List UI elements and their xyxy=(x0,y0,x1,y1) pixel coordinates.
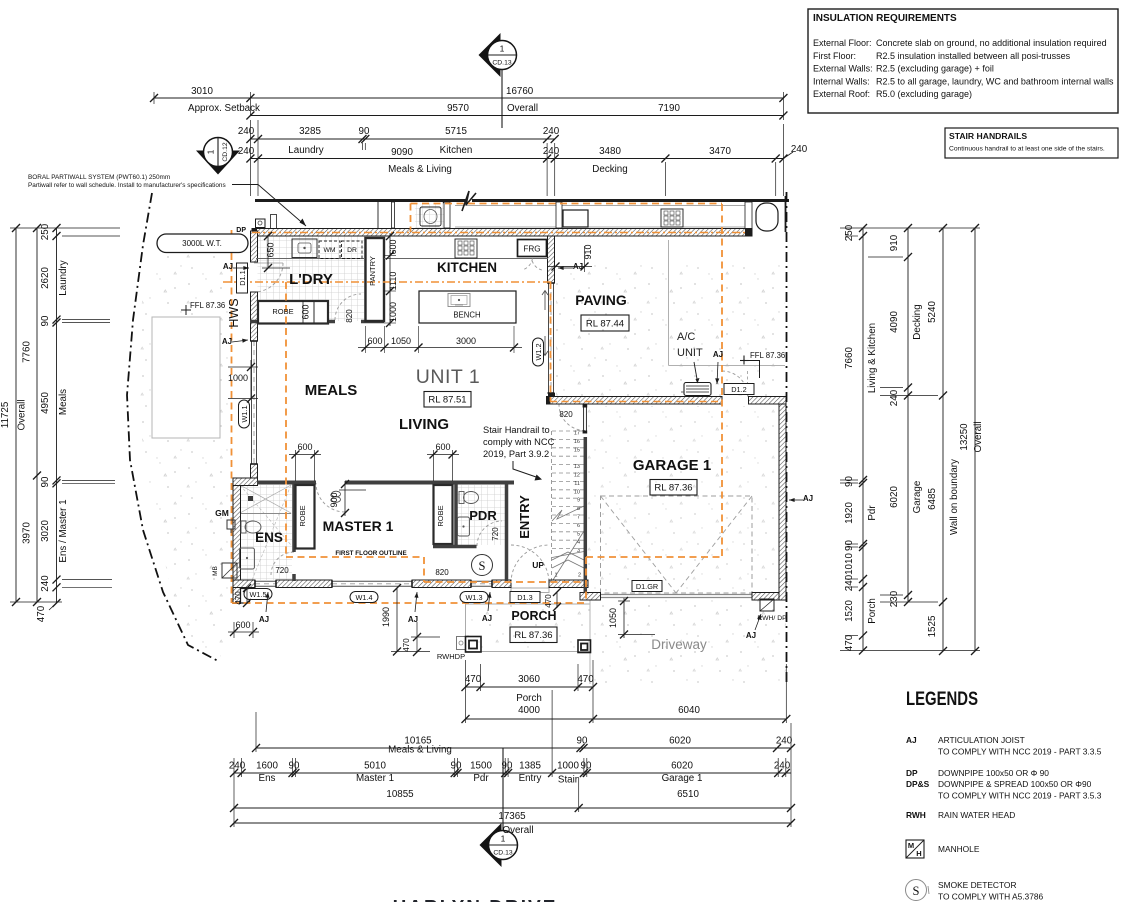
door arc D1.2 paving xyxy=(722,371,748,397)
svg-text:Internal Walls:: Internal Walls: xyxy=(813,76,870,86)
stipple garage floor xyxy=(587,406,779,592)
svg-text:SMOKE DETECTOR: SMOKE DETECTOR xyxy=(938,880,1017,890)
svg-text:1920: 1920 xyxy=(844,502,855,524)
svg-text:UNIT: UNIT xyxy=(677,347,703,359)
dim 1990 porch left xyxy=(396,588,398,652)
front wall segment d xyxy=(492,580,511,588)
left dimension line 11725 xyxy=(15,228,17,602)
window W1.2 xyxy=(548,283,550,393)
first floor outline garage vertical xyxy=(721,204,723,557)
top dimension row 4 xyxy=(250,158,783,160)
meter box symbol xyxy=(222,563,237,578)
svg-text:4090: 4090 xyxy=(889,311,900,333)
bottom porch 4000 row xyxy=(466,718,787,720)
tag W1.3 xyxy=(460,592,488,603)
label RL 87.44 box xyxy=(581,315,629,331)
unit2 bench box xyxy=(563,210,588,227)
dim 910 paving xyxy=(548,266,592,268)
svg-text:240: 240 xyxy=(238,146,255,157)
svg-text:MASTER 1: MASTER 1 xyxy=(323,518,394,534)
svg-text:Garage 1: Garage 1 xyxy=(662,773,703,784)
section marker CO.12 left xyxy=(196,151,240,175)
top dimension row 2 xyxy=(250,115,783,117)
svg-text:1: 1 xyxy=(554,573,557,579)
water tank 3000L xyxy=(157,234,248,253)
dim 650 laundry xyxy=(267,236,269,268)
dim kitchen 600 1050 3000 xyxy=(358,347,522,349)
svg-text:AJ: AJ xyxy=(223,262,233,271)
dim 470 entry step xyxy=(556,592,558,608)
first floor outline deck-garage wall segment xyxy=(550,401,722,403)
svg-text:External Walls:: External Walls: xyxy=(813,64,873,74)
unit2 wall stub b xyxy=(444,202,450,228)
svg-text:9: 9 xyxy=(577,498,580,504)
svg-text:15: 15 xyxy=(574,447,580,453)
svg-text:A/C: A/C xyxy=(677,331,695,343)
dim 900 master door xyxy=(344,481,346,516)
downpipe square top xyxy=(256,219,266,228)
driveway porch divider line xyxy=(589,600,591,684)
svg-text:BENCH: BENCH xyxy=(453,311,480,320)
svg-text:TO COMPLY WITH A5.3786: TO COMPLY WITH A5.3786 xyxy=(938,892,1044,902)
svg-text:1000: 1000 xyxy=(388,302,398,322)
svg-text:470: 470 xyxy=(544,594,553,608)
site boundary left dash-dot xyxy=(127,193,218,661)
svg-text:240: 240 xyxy=(238,126,255,137)
svg-text:Garage: Garage xyxy=(912,480,923,513)
svg-text:1050: 1050 xyxy=(608,608,618,628)
tag D1.1 xyxy=(237,263,248,293)
svg-text:240: 240 xyxy=(791,144,808,155)
rain water head RWHDP xyxy=(457,637,466,650)
svg-text:13: 13 xyxy=(574,464,580,470)
svg-text:3: 3 xyxy=(577,548,580,554)
svg-text:Pdr: Pdr xyxy=(473,773,489,784)
dim 600 laundry robe xyxy=(302,301,304,323)
svg-text:Overall: Overall xyxy=(973,421,984,452)
svg-text:1000: 1000 xyxy=(557,761,579,772)
svg-text:Decking: Decking xyxy=(912,304,923,339)
svg-text:240: 240 xyxy=(776,736,793,747)
svg-text:PDR: PDR xyxy=(469,508,497,523)
svg-text:RL 87.51: RL 87.51 xyxy=(428,395,466,406)
window W1.2 slide arrows xyxy=(542,291,548,311)
svg-text:DP&S: DP&S xyxy=(906,779,930,789)
ensuite toilet xyxy=(241,521,246,533)
svg-text:1: 1 xyxy=(500,44,505,54)
svg-text:D1.2: D1.2 xyxy=(731,385,746,394)
svg-text:INSULATION REQUIREMENTS: INSULATION REQUIREMENTS xyxy=(813,13,957,24)
svg-text:1385: 1385 xyxy=(519,761,541,772)
laundry meals wall xyxy=(250,320,335,324)
svg-text:Overall: Overall xyxy=(17,399,28,430)
svg-text:90: 90 xyxy=(451,761,462,772)
porch slab outline xyxy=(466,604,591,652)
svg-text:90: 90 xyxy=(577,736,588,747)
svg-text:W1.4: W1.4 xyxy=(355,593,372,602)
svg-text:PANTRY: PANTRY xyxy=(368,256,377,286)
svg-text:1: 1 xyxy=(206,149,216,154)
svg-text:W1.5: W1.5 xyxy=(249,590,266,599)
svg-text:R2.5 (excluding garage) + foil: R2.5 (excluding garage) + foil xyxy=(876,64,994,74)
ensuite right wall xyxy=(292,484,296,552)
svg-text:R5.0 (excluding garage): R5.0 (excluding garage) xyxy=(876,89,972,99)
svg-text:First Floor:: First Floor: xyxy=(813,51,856,61)
kitchen bench edge xyxy=(384,258,548,260)
svg-text:RAIN WATER HEAD: RAIN WATER HEAD xyxy=(938,810,1015,820)
svg-text:WM: WM xyxy=(323,247,335,254)
svg-text:Laundry: Laundry xyxy=(58,260,69,296)
stipple driveway xyxy=(590,600,786,684)
svg-text:90: 90 xyxy=(581,761,592,772)
svg-text:AJ: AJ xyxy=(713,350,723,359)
paving edge horizontal line xyxy=(669,365,786,367)
svg-text:90: 90 xyxy=(289,761,300,772)
tile floor laundry xyxy=(258,236,365,321)
stair left edge xyxy=(551,431,553,581)
first floor outline bottom xyxy=(232,602,586,604)
svg-text:600: 600 xyxy=(297,442,312,452)
svg-text:AJ: AJ xyxy=(482,614,492,623)
svg-text:470: 470 xyxy=(465,674,482,685)
svg-text:GARAGE 1: GARAGE 1 xyxy=(633,457,711,474)
svg-text:Partiwall refer to wall schedu: Partiwall refer to wall schedule. Instal… xyxy=(28,182,226,189)
svg-text:D1.GR: D1.GR xyxy=(636,582,658,591)
svg-text:Kitchen: Kitchen xyxy=(440,145,473,156)
svg-text:13250: 13250 xyxy=(959,423,970,451)
svg-text:240: 240 xyxy=(889,389,900,406)
bottom porch row xyxy=(466,686,594,688)
svg-text:Ens: Ens xyxy=(259,773,276,784)
door arc D1.1 laundry entry xyxy=(254,263,283,292)
svg-text:3020: 3020 xyxy=(40,520,51,542)
svg-text:W1.2: W1.2 xyxy=(534,343,543,360)
svg-text:AJ: AJ xyxy=(906,735,917,745)
svg-text:R2.5 to all garage, laundry, W: R2.5 to all garage, laundry, WC and bath… xyxy=(876,76,1114,86)
svg-text:Concrete slab on ground, no ad: Concrete slab on ground, no additional i… xyxy=(876,38,1107,48)
top line triangle marker xyxy=(443,202,451,208)
label RL 87.36 garage box xyxy=(650,480,697,496)
right dimension line B xyxy=(907,228,909,602)
svg-text:DR: DR xyxy=(347,247,357,254)
tile floor unit2 laundry strip xyxy=(415,203,444,228)
shower screen diagonals ensuite xyxy=(240,485,291,513)
fridge box FRG xyxy=(518,240,547,257)
svg-text:600: 600 xyxy=(235,620,250,630)
dim 600 robes master xyxy=(295,450,297,481)
svg-text:3000L W.T.: 3000L W.T. xyxy=(182,239,222,248)
svg-text:LIVING: LIVING xyxy=(399,416,449,433)
svg-text:CD.13: CD.13 xyxy=(492,60,511,67)
front wall segment a xyxy=(233,580,255,588)
top dimension extension lines xyxy=(249,120,251,196)
laundry robe block xyxy=(258,301,328,324)
svg-text:GM: GM xyxy=(215,508,229,518)
right dimension line A xyxy=(862,228,864,651)
site boundary right dash-dot xyxy=(786,192,788,684)
left dimension extension dashes xyxy=(62,227,120,229)
svg-text:KITCHEN: KITCHEN xyxy=(437,260,497,275)
svg-text:Continuous handrail to at leas: Continuous handrail to at least one side… xyxy=(949,146,1105,153)
first floor outline kitchen line xyxy=(223,281,551,283)
svg-text:3285: 3285 xyxy=(299,126,321,137)
svg-text:9570: 9570 xyxy=(447,103,469,114)
svg-text:250: 250 xyxy=(844,224,855,241)
first floor outline front wall segment xyxy=(424,581,586,583)
bottom 10165 row xyxy=(256,747,791,749)
ensuite left external wall xyxy=(233,486,241,588)
tile floor powder room xyxy=(458,485,506,545)
washing machine box xyxy=(319,241,340,259)
first floor outline kitchen wall vertical xyxy=(550,282,552,402)
svg-text:2019, Part 3.9.2: 2019, Part 3.9.2 xyxy=(483,449,549,459)
svg-text:16760: 16760 xyxy=(506,86,534,97)
left external wall lower xyxy=(251,464,258,479)
paving edge vertical line xyxy=(668,240,670,366)
svg-text:DP: DP xyxy=(906,768,918,778)
pantry block xyxy=(366,238,385,321)
svg-text:W1.1: W1.1 xyxy=(240,405,249,422)
rain water head right RWH/DP xyxy=(760,599,774,611)
first floor outline porch right vertical xyxy=(585,557,587,603)
svg-text:250: 250 xyxy=(40,223,51,240)
right dimension line D xyxy=(974,228,976,651)
svg-text:7760: 7760 xyxy=(22,341,33,363)
first floor outline master vertical xyxy=(285,282,287,557)
svg-text:Porch: Porch xyxy=(867,598,878,624)
porch post left xyxy=(466,637,482,653)
svg-text:90: 90 xyxy=(844,476,855,487)
stair diagonal cut xyxy=(553,531,584,580)
stair break line xyxy=(552,506,584,521)
section marker CD.13 top xyxy=(479,33,501,77)
powder left wall xyxy=(454,484,458,548)
svg-text:comply with NCC: comply with NCC xyxy=(483,437,555,447)
svg-text:240: 240 xyxy=(543,126,560,137)
window W1.4 xyxy=(332,580,412,582)
svg-text:Meals & Living: Meals & Living xyxy=(388,164,452,175)
stair handrails box xyxy=(945,128,1118,158)
svg-text:6040: 6040 xyxy=(678,705,700,716)
deck strip top line xyxy=(455,205,745,207)
svg-text:Master 1: Master 1 xyxy=(356,773,394,784)
svg-text:240: 240 xyxy=(40,575,51,592)
svg-text:CD.12: CD.12 xyxy=(222,142,229,161)
tag W1.2 xyxy=(533,338,544,366)
svg-text:1010: 1010 xyxy=(844,553,855,575)
front wall segment b xyxy=(276,580,332,588)
svg-text:Driveway: Driveway xyxy=(651,637,707,652)
tag D1.3 xyxy=(510,592,540,603)
master robe right block xyxy=(434,485,453,544)
svg-text:ENS: ENS xyxy=(255,530,283,545)
svg-text:Decking: Decking xyxy=(592,164,627,175)
corner pier below ensuite xyxy=(233,588,241,604)
top dimension row 3 xyxy=(250,138,555,140)
bottom 10855 row xyxy=(234,807,791,809)
svg-text:Stair: Stair xyxy=(558,775,579,786)
left external wall upper with D1.1 opening xyxy=(251,231,258,262)
svg-text:RWHDP: RWHDP xyxy=(437,652,465,661)
svg-text:3000: 3000 xyxy=(456,336,476,346)
deck strip bottom line xyxy=(455,226,745,228)
svg-text:FFL 87.36: FFL 87.36 xyxy=(750,351,785,360)
label RL 87.36 porch box xyxy=(510,627,557,643)
smoke detector entry xyxy=(472,555,493,576)
svg-text:S: S xyxy=(913,884,920,898)
garage door panel xyxy=(601,594,753,596)
svg-text:Laundry: Laundry xyxy=(288,145,324,156)
svg-text:ENTRY: ENTRY xyxy=(517,495,532,539)
garage front wall left xyxy=(580,593,601,601)
svg-text:PORCH: PORCH xyxy=(511,609,556,623)
svg-text:Ens / Master 1: Ens / Master 1 xyxy=(58,499,69,562)
svg-text:3480: 3480 xyxy=(599,146,621,157)
wall break symbol xyxy=(462,191,476,211)
svg-text:240: 240 xyxy=(844,574,855,591)
svg-text:LEGENDS: LEGENDS xyxy=(906,688,978,710)
svg-text:M: M xyxy=(908,841,914,850)
svg-text:W1.3: W1.3 xyxy=(465,593,482,602)
window W1.1 xyxy=(251,341,253,464)
svg-text:600: 600 xyxy=(367,336,382,346)
entry porch step xyxy=(511,588,549,593)
svg-text:600: 600 xyxy=(388,239,398,254)
svg-text:DOWNPIPE 100x50 OR Φ 90: DOWNPIPE 100x50 OR Φ 90 xyxy=(938,768,1049,778)
svg-text:7190: 7190 xyxy=(658,103,680,114)
right dimension extension dashes xyxy=(840,227,980,229)
bottom 17365 row xyxy=(234,822,791,824)
svg-text:10: 10 xyxy=(574,489,580,495)
svg-text:910: 910 xyxy=(583,244,593,259)
svg-text:1520: 1520 xyxy=(844,600,855,622)
master top wall xyxy=(257,481,316,485)
svg-text:820: 820 xyxy=(559,410,573,419)
dryer box xyxy=(342,241,363,259)
svg-text:AJ: AJ xyxy=(746,631,756,640)
svg-text:90: 90 xyxy=(40,476,51,487)
svg-text:470: 470 xyxy=(36,605,47,622)
right fence line top xyxy=(785,196,787,232)
svg-text:UP: UP xyxy=(532,560,544,570)
dim 1050 garage door xyxy=(623,598,625,638)
svg-text:5240: 5240 xyxy=(927,301,938,323)
svg-text:4: 4 xyxy=(577,540,580,546)
svg-text:RL 87.36: RL 87.36 xyxy=(514,630,552,641)
dim 1000 window W1.1 xyxy=(250,360,252,399)
svg-text:D1.1: D1.1 xyxy=(238,270,247,285)
svg-text:AJ: AJ xyxy=(259,615,269,624)
svg-text:L'DRY: L'DRY xyxy=(289,271,333,288)
first floor outline left vertical xyxy=(231,230,233,603)
svg-text:External Roof:: External Roof: xyxy=(813,89,870,99)
svg-text:ROBE: ROBE xyxy=(298,505,307,526)
svg-text:ARTICULATION JOIST: ARTICULATION JOIST xyxy=(938,735,1025,745)
svg-text:600: 600 xyxy=(301,304,311,319)
garage door swing diagonal left xyxy=(601,496,677,593)
decking garage wall xyxy=(547,397,723,405)
svg-text:6: 6 xyxy=(577,523,580,529)
svg-text:17365: 17365 xyxy=(498,811,526,822)
svg-text:3060: 3060 xyxy=(518,674,540,685)
island sink xyxy=(448,294,470,307)
tag W1.1 xyxy=(239,400,250,428)
svg-text:720: 720 xyxy=(275,566,289,575)
label RL 87.51 box xyxy=(424,392,471,408)
stipple porch xyxy=(466,604,591,652)
svg-text:11725: 11725 xyxy=(0,401,11,428)
svg-text:Wall on boundary: Wall on boundary xyxy=(949,459,960,535)
svg-text:HWS: HWS xyxy=(227,298,241,327)
powder toilet xyxy=(459,492,464,504)
svg-text:AJ: AJ xyxy=(222,337,232,346)
svg-text:FIRST FLOOR OUTLINE: FIRST FLOOR OUTLINE xyxy=(335,550,406,557)
svg-text:7: 7 xyxy=(577,515,580,521)
dim 600 below ens xyxy=(233,622,235,638)
svg-text:240: 240 xyxy=(229,761,246,772)
door arc entry door D1.3 xyxy=(511,545,549,583)
svg-text:11: 11 xyxy=(574,481,580,487)
laundry sink xyxy=(292,239,317,258)
svg-text:8: 8 xyxy=(577,506,580,512)
svg-text:TO COMPLY WITH NCC 2019 - PART: TO COMPLY WITH NCC 2019 - PART 3.5.3 xyxy=(938,791,1102,801)
svg-text:3970: 3970 xyxy=(22,522,33,544)
first floor outline decking stub xyxy=(410,204,412,233)
svg-text:Overall: Overall xyxy=(502,825,533,836)
svg-text:DOWNPIPE & SPREAD 100x50 OR: DOWNPIPE & SPREAD 100x50 OR Φ90 xyxy=(938,779,1092,789)
svg-text:240: 240 xyxy=(543,146,560,157)
front wall segment c xyxy=(412,580,471,588)
ac unit leader arrow xyxy=(694,362,697,379)
section marker CD.13 bottom xyxy=(480,823,502,867)
svg-text:820: 820 xyxy=(345,309,354,323)
svg-text:BORAL PARTIWALL SYSTEM (PWT60.: BORAL PARTIWALL SYSTEM (PWT60.1) 250mm xyxy=(28,174,170,181)
svg-text:6020: 6020 xyxy=(669,736,691,747)
unit2 wall stub d xyxy=(745,202,752,232)
svg-text:4950: 4950 xyxy=(40,392,51,414)
kitchen cooktop xyxy=(455,239,477,258)
svg-text:UNIT 1: UNIT 1 xyxy=(416,366,480,388)
svg-text:470: 470 xyxy=(234,591,243,605)
svg-text:650: 650 xyxy=(266,242,276,257)
svg-text:720: 720 xyxy=(491,527,500,541)
svg-text:9090: 9090 xyxy=(391,147,413,158)
svg-text:12: 12 xyxy=(574,473,580,479)
svg-text:R2.5 insulation installed betw: R2.5 insulation installed between all po… xyxy=(876,51,1071,61)
svg-text:6020: 6020 xyxy=(671,761,693,772)
svg-text:Entry: Entry xyxy=(519,773,542,784)
unit2 cooktop xyxy=(661,209,683,227)
unit2 wall stub c xyxy=(556,202,562,228)
tag D1.GR xyxy=(632,581,662,592)
svg-text:HARLYN DRIVE: HARLYN DRIVE xyxy=(393,898,558,902)
svg-text:DP: DP xyxy=(236,227,246,234)
svg-text:3010: 3010 xyxy=(191,86,213,97)
svg-text:470: 470 xyxy=(844,634,855,651)
ensuite vanity xyxy=(240,548,255,569)
unit2 bath capsule xyxy=(756,203,778,231)
svg-text:600: 600 xyxy=(435,442,450,452)
garage door swing diagonal right xyxy=(676,496,752,593)
top boundary wall line xyxy=(255,199,466,202)
svg-text:240: 240 xyxy=(774,761,791,772)
shower drain xyxy=(248,496,253,501)
kitchen island bench xyxy=(419,291,516,323)
svg-text:910: 910 xyxy=(889,234,900,251)
svg-text:5: 5 xyxy=(577,531,580,537)
svg-text:16: 16 xyxy=(574,439,580,445)
label FFL 87.36 left xyxy=(181,309,191,311)
